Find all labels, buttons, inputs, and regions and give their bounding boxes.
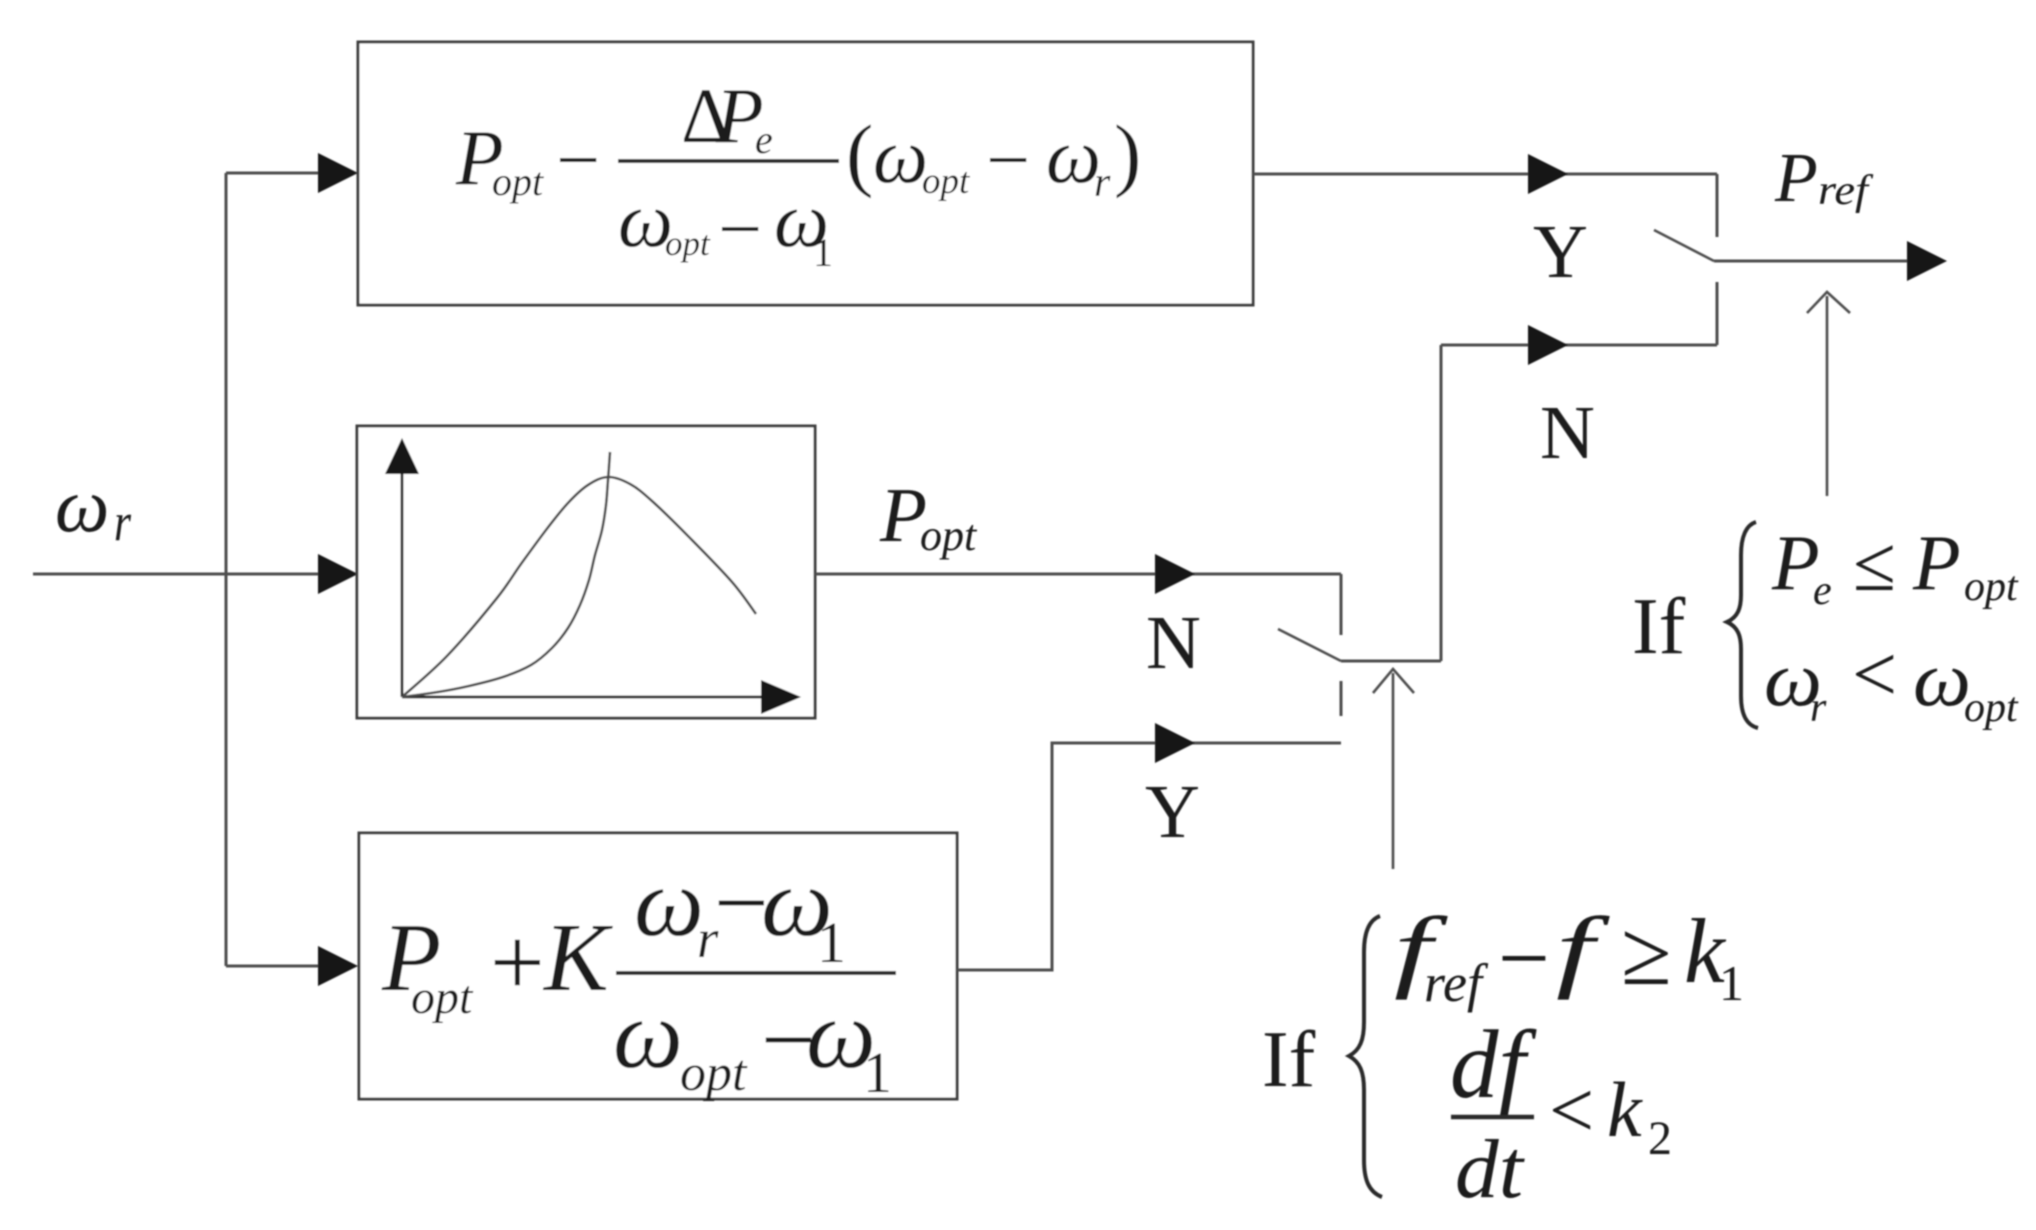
- svg-text:K: K: [542, 904, 613, 1011]
- svg-text:+: +: [490, 909, 545, 1016]
- formula: Popt - dPe/(wopt-w1) (wopt-wr): [455, 72, 1141, 275]
- switch SW1 upper terminal: [1716, 174, 1719, 237]
- svg-text:Y: Y: [1533, 210, 1588, 294]
- svg-text:ω: ω: [873, 112, 928, 199]
- condition 1: If {Pe<=Popt, wr<wopt}: [1632, 519, 2019, 731]
- condition arrow into SW1 output: [1826, 296, 1829, 496]
- condition arrow into SW2 output: [1392, 673, 1395, 869]
- svg-text:<: <: [1549, 1067, 1594, 1155]
- wire: Pref output: [1714, 260, 1912, 263]
- svg-text:(: (: [846, 108, 873, 199]
- wire: riser up to N input of SW1: [1440, 345, 1443, 661]
- svg-text:ref: ref: [1818, 168, 1874, 214]
- svg-text:1: 1: [863, 1040, 892, 1105]
- arrowhead on Popt wire: [1155, 554, 1195, 594]
- arrowhead into bottom box: [318, 946, 358, 986]
- graph x-axis: [402, 696, 765, 699]
- label Pref: [1774, 140, 1874, 217]
- svg-text:<: <: [1852, 631, 1897, 719]
- wire: bottom box output elbow: [957, 743, 1341, 970]
- switch SW2 lower terminal: [1340, 681, 1343, 716]
- svg-text:≤: ≤: [1853, 520, 1896, 607]
- arrowhead into top box: [318, 153, 358, 193]
- svg-text:opt: opt: [665, 224, 711, 263]
- switch SW1 lower terminal: [1716, 282, 1719, 345]
- svg-text:e: e: [755, 117, 773, 162]
- svg-text:r: r: [1810, 685, 1827, 731]
- svg-text:dt: dt: [1455, 1123, 1526, 1216]
- block: support formula box: [359, 833, 957, 1099]
- svg-text:ω: ω: [55, 462, 109, 548]
- svg-text:df: df: [1450, 1011, 1538, 1118]
- svg-text:ω: ω: [1913, 635, 1971, 722]
- svg-text:−: −: [1498, 907, 1550, 1009]
- svg-text:1: 1: [1719, 955, 1744, 1011]
- graph cubic curve: [402, 452, 610, 697]
- svg-text:opt: opt: [922, 161, 971, 202]
- svg-text:−: −: [986, 116, 1030, 203]
- switch SW2 upper terminal: [1340, 574, 1343, 635]
- svg-text:2: 2: [1648, 1112, 1672, 1165]
- arrowhead into middle box: [318, 554, 358, 594]
- wire: SW2 output to riser: [1341, 660, 1441, 663]
- wire: middle box output: [815, 573, 1341, 576]
- svg-text:opt: opt: [680, 1045, 748, 1102]
- svg-text:1: 1: [813, 230, 833, 275]
- svg-text:opt: opt: [1964, 564, 2019, 610]
- switch SW2 blade: [1278, 629, 1341, 661]
- svg-text:ref: ref: [1424, 953, 1489, 1013]
- graph bell curve: [402, 477, 756, 697]
- formula: Popt + K (wr-w1)/(wopt-w1): [381, 849, 896, 1105]
- block: power curve box: [357, 426, 815, 718]
- wire: branch to top box: [226, 172, 330, 175]
- node: branch vertical: [225, 173, 228, 966]
- svg-text:ω: ω: [634, 849, 704, 956]
- label omega_r: [55, 462, 132, 552]
- switch SW1 blade: [1654, 230, 1714, 261]
- arrowhead output: [1907, 241, 1947, 281]
- arrowhead on top output wire: [1528, 154, 1568, 194]
- block: droop formula box: [358, 42, 1253, 305]
- svg-text:r: r: [1094, 160, 1111, 206]
- arrowhead on N wire: [1528, 325, 1568, 365]
- condition 2: If {fref - f >= k1, df/dt < k2}: [1262, 898, 1744, 1216]
- arrowhead on Y wire: [1155, 723, 1195, 763]
- svg-text:−: −: [556, 116, 600, 203]
- graph y-axis: [401, 470, 404, 697]
- svg-text:N: N: [1540, 391, 1595, 475]
- svg-text:≥: ≥: [1621, 902, 1672, 1004]
- wire: top box output: [1253, 173, 1717, 176]
- wire: N input of SW1: [1441, 344, 1717, 347]
- svg-text:opt: opt: [1964, 685, 2019, 731]
- wire: branch to bottom box: [226, 965, 330, 968]
- label Popt: [879, 472, 978, 560]
- svg-text:e: e: [1813, 568, 1832, 614]
- svg-text:If: If: [1262, 1016, 1316, 1104]
- svg-text:): ): [1114, 108, 1141, 199]
- svg-text:opt: opt: [411, 971, 474, 1024]
- svg-text:If: If: [1632, 583, 1686, 671]
- svg-text:ω: ω: [613, 981, 683, 1088]
- svg-text:ω: ω: [1046, 112, 1101, 199]
- svg-text:k: k: [1607, 1066, 1643, 1153]
- svg-text:Y: Y: [1145, 770, 1200, 854]
- svg-text:opt: opt: [920, 511, 978, 560]
- svg-text:r: r: [114, 492, 132, 552]
- svg-text:P: P: [1912, 519, 1961, 606]
- wire: omega_r input line: [33, 573, 330, 576]
- svg-text:opt: opt: [492, 159, 544, 204]
- svg-text:1: 1: [817, 910, 846, 975]
- svg-text:N: N: [1146, 601, 1201, 685]
- svg-text:P: P: [1774, 140, 1818, 217]
- svg-text:−: −: [718, 185, 762, 272]
